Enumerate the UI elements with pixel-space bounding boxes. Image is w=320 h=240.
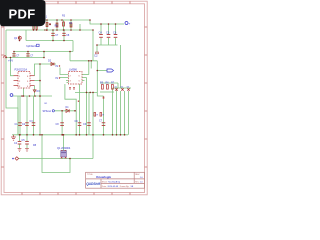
WIRES [6, 20, 131, 173]
diode D3 [33, 90, 40, 93]
svg-text:SPKout: SPKout [43, 110, 52, 113]
net port hpfilter [26, 44, 39, 48]
wire stub x=63.5 [63, 20, 65, 30]
net port SPKout [43, 110, 55, 113]
part X3 [127, 87, 130, 91]
svg-text:hpFilter1: hpFilter1 [26, 44, 37, 48]
power flag +9V [3, 56, 13, 63]
wire rail y=60.8 [70, 60, 97, 62]
frame tick marks left [1, 27, 4, 167]
wire link x=47 [46, 20, 48, 30]
diode D4 [66, 107, 70, 112]
svg-text:PDF: PDF [9, 6, 36, 21]
capacitor C11 [22, 123, 29, 126]
label net A [45, 103, 48, 105]
label R8 [33, 144, 37, 147]
wire link x=26 [25, 30, 27, 41]
wire x=10.5 to U1 [11, 58, 14, 76]
wire v x=116.5 [116, 88, 118, 135]
wire stub x=57 [56, 20, 58, 30]
wire x=91.2 into U2 [90, 61, 92, 69]
wire x=93 down from rail34 [92, 30, 94, 61]
wire top rail y=20 [46, 20, 125, 24]
wire left vertical x=5 [6, 30, 18, 135]
capacitor C19 [12, 54, 20, 58]
net label C2 [94, 52, 99, 58]
wire U2 left pin4 stub [66, 80, 69, 82]
JUNCTION DOTS [5, 19, 125, 159]
wire h y=88 [113, 87, 132, 89]
wire v x=62.5 [61, 111, 63, 135]
PDF badge [0, 0, 46, 26]
wire U1 right-mid down [35, 80, 41, 82]
svg-text:Drawn By:: Drawn By: [120, 186, 130, 188]
resistor R9 [30, 24, 34, 29]
wire v x=112.5 [112, 88, 114, 135]
net arrow OUT [107, 69, 114, 72]
svg-text:C5: C5 [106, 31, 110, 35]
wire Q2 stub [19, 36, 21, 41]
net flag IN2 [56, 76, 61, 80]
wire v x=27 [26, 96, 28, 135]
wire v x=120.5 top [120, 45, 122, 88]
capacitor C5 [106, 31, 110, 38]
transistor Q2 [14, 36, 21, 39]
wire stub x=33.5 [33, 25, 35, 30]
net flag IN1 [56, 64, 61, 68]
capacitor C20 [26, 54, 34, 58]
wire v x=79.5 [79, 84, 81, 135]
op-amp U2 dashed box [69, 68, 83, 85]
capacitor C14 [75, 120, 82, 126]
wire v x=33.5 [33, 96, 35, 135]
svg-text:IN: IN [56, 76, 59, 80]
resistor R7 [111, 82, 115, 90]
wire v x=103.5 [103, 96, 105, 135]
resistor R5 [100, 82, 104, 90]
wire rail y=30 [6, 29, 93, 31]
capacitor C16 [99, 120, 105, 126]
net flag G+ [125, 22, 131, 26]
svg-text:LM386: LM386 [69, 68, 77, 72]
svg-text:Q1 2N3904: Q1 2N3904 [57, 146, 71, 150]
svg-text:+9V: +9V [8, 59, 13, 63]
wire U1 top-right to diode [35, 64, 57, 76]
wire stub x=14 row4 [13, 52, 15, 58]
wire resistor row top [100, 82, 118, 84]
resistor R10 [36, 24, 38, 29]
wire v x=120.5 bottom [120, 91, 122, 135]
wire flag2 to U2 [60, 77, 69, 79]
label cluster near badge [44, 30, 48, 32]
wire x=88.8 up [88, 61, 90, 75]
svg-text:Knowlogix: Knowlogix [96, 175, 111, 179]
wire bottom net y=158.5 [18, 158, 93, 160]
wire rail y=91 [75, 91, 97, 93]
svg-text:P2N2222A: P2N2222A [15, 68, 28, 72]
wire v x=93 [92, 92, 94, 158]
wire stub x=28 row4 [27, 52, 29, 58]
svg-text:No-StripAmp: No-StripAmp [108, 180, 121, 183]
capacitor C4 [99, 31, 103, 38]
capacitor C18 [22, 139, 29, 144]
transistor U1 dashed box [14, 68, 35, 89]
wire v x=124.5 [124, 91, 126, 135]
capacitor C10 [15, 123, 22, 126]
pin mark P2 [103, 97, 105, 99]
wire link x=80 [79, 24, 81, 30]
wire stub x=64 caps [63, 30, 65, 41]
transistor Q1 [57, 146, 71, 159]
wire v x=20 [19, 96, 21, 135]
svg-text:C4: C4 [99, 31, 103, 35]
svg-text:IN: IN [56, 64, 59, 68]
wire link 99 [97, 92, 103, 96]
resistor R12 [100, 113, 105, 117]
wire ground rail [12, 134, 128, 136]
wire link x=73 [72, 41, 74, 52]
wire v x=86.5 [86, 78, 88, 135]
part X2 [121, 87, 124, 91]
capacitor C7 [51, 33, 59, 37]
wire rail y=57.5 [6, 57, 44, 59]
resistor R3 [62, 15, 66, 27]
wire node C2 drop [96, 45, 98, 53]
wire v x=18b [17, 96, 19, 135]
wire U1 bottom pin [23, 88, 25, 96]
resistor R2 [49, 23, 58, 28]
capacitor C17 [14, 141, 21, 145]
wire cap-bank bottom rail [97, 44, 118, 46]
frame tick marks top [22, 1, 130, 4]
wire bottom loop [42, 135, 70, 173]
svg-text:REV:: REV: [135, 174, 140, 176]
svg-text:Sheet:: Sheet: [102, 180, 108, 183]
frame tick marks bottom [22, 193, 130, 195]
part X1 [115, 87, 118, 91]
capacitor C13 [56, 123, 64, 126]
capacitor C8 [62, 33, 70, 37]
wire U2 right stubs [82, 74, 89, 76]
net port diamond [12, 157, 18, 161]
wire caps2 v2 [26, 135, 28, 141]
pin marks under U2 [69, 88, 75, 89]
wire v x=40 [39, 64, 41, 135]
wire Q1 top [63, 135, 65, 151]
wire v x=76.2 [75, 111, 77, 135]
wire caps2 v1 [19, 135, 21, 141]
resistor R1 [44, 16, 48, 27]
resistor R11 [94, 113, 99, 117]
wire v x=128.5 [128, 91, 130, 135]
resistor R6 [106, 82, 110, 90]
capacitor C15 [83, 123, 91, 126]
wire stub x=53 caps [52, 30, 54, 41]
wire OUT stub [97, 70, 107, 72]
wire stub x=36.5 [36, 25, 38, 30]
capacitor C12 [30, 120, 36, 125]
wire link x=70 [69, 52, 71, 61]
ground under C18 [25, 149, 29, 152]
svg-text:2024-03-08: 2024-03-08 [108, 186, 119, 188]
wire x=118 down [117, 83, 119, 88]
wire flag1 to U2 [60, 68, 69, 75]
wire x=44 link [43, 52, 45, 58]
frame outer border [1, 1, 147, 195]
diode D2 [48, 60, 54, 66]
svg-text:Date:: Date: [102, 185, 107, 188]
wire v x=89 [88, 92, 90, 134]
svg-text:+: + [129, 22, 131, 26]
svg-text:TITLE:: TITLE: [87, 174, 93, 176]
resistor R4 [69, 22, 73, 27]
wire rail y=96 [13, 95, 52, 97]
capacitor C6 [113, 31, 117, 38]
svg-text:QADShift: QADShift [86, 182, 101, 186]
net port P1 [10, 94, 13, 97]
wire U2 left pin3 stub [67, 82, 69, 84]
pin speck A [78, 101, 79, 102]
svg-text:C2: C2 [94, 54, 98, 58]
wire resistor row bottom [100, 91, 114, 93]
wire U-link [65, 84, 76, 111]
wire speaker net [55, 110, 77, 112]
frame tick marks right [145, 27, 148, 167]
ground under C17 [18, 149, 22, 152]
wire x=97.3 down [96, 61, 98, 93]
frame inner border [4, 4, 145, 193]
wire rail y=40.5 [26, 40, 73, 42]
wire cap-bank verticals [100, 24, 102, 34]
TITLE BLOCK [86, 172, 145, 188]
wire rail y=51.5 [14, 51, 74, 53]
svg-text:C6: C6 [113, 31, 117, 35]
wire U1 right-bot down [34, 86, 36, 96]
wire stub x=71 [70, 20, 72, 30]
ground [11, 135, 16, 140]
